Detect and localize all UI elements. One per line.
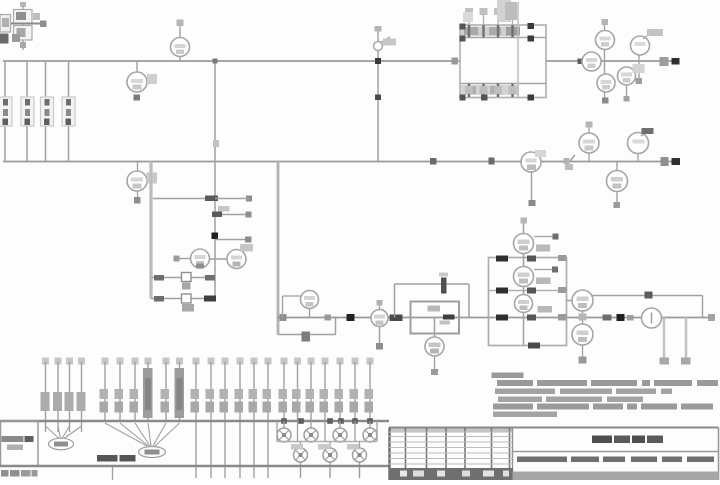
wire TE2 to bus [179,57,181,62]
tick on L3 [325,315,332,321]
strip wire B4 [145,358,152,422]
valve HV1 top tick [375,26,382,42]
wire FI1 stem down [529,172,536,206]
stub K2 [534,267,558,273]
cable label 5 [100,389,109,413]
cable label 15 [249,389,258,413]
cable label 9 [161,389,170,413]
notes line 5 [493,412,557,418]
terminal tick PI3 [602,98,609,104]
instrument circle TI5 [579,133,599,153]
wire lamp row edge right [376,421,378,442]
title block name text [517,457,714,463]
dark marker A2 [0,13,40,44]
device box PLC1 [411,302,460,334]
connector MV1-MV2 [579,311,587,324]
wire drop at x215 [214,61,216,299]
cable label 13 [220,389,229,413]
cable merge B [105,423,180,446]
wire bus L3 (mid bus) [277,317,712,319]
title block column boundary [512,428,514,481]
contacts U2 right [558,255,567,321]
junction dots U1 right [481,23,534,101]
wire down x686 [681,318,691,365]
contacts U2 mid [527,256,536,321]
wire heavy bottom line [0,465,390,467]
wire drop line 2 [26,61,28,162]
label K1 [536,245,550,252]
wire PLC1 to gauge [434,318,436,339]
instrument circle FE1 arm [174,256,191,262]
strip wire A3 [66,358,73,433]
wire row y277 [151,275,215,281]
contact frame U1 outline [460,25,546,98]
sensor cluster A1 stem [20,2,26,50]
strip wire A2 [55,358,62,433]
cable label 11 [191,389,200,413]
instrument circle PI2 [596,31,615,50]
strip wire C5 [251,358,258,479]
wire branch y239 stub [215,237,252,243]
cable stub below line [112,467,114,480]
contact pair bottom 2 [480,84,488,98]
wire bus L1 (top supply bus) [3,60,679,62]
lamp circle HL3 [353,448,367,478]
motor valve circle MV2 [572,324,593,345]
strip wire C1 [193,358,200,479]
junction in PLC1 [443,315,455,320]
cable label 4 [77,392,86,411]
strip wire B6 [176,358,183,422]
cable label 17 [279,389,288,413]
wire MV2 stem [579,345,587,364]
contact pair top 4 [509,8,517,38]
frame U1 top band texture [460,24,521,42]
instrument circle TE3 stem [137,162,139,172]
wire FQ1 stem [431,356,438,375]
title block doc number [592,436,663,444]
frame U1 bottom inner line [460,83,546,85]
bottom text row [1,470,38,477]
strip wire G1 [281,358,288,422]
instrument circle PI4 [618,67,636,85]
instrument circle FI2 [371,310,388,327]
wire drop line 4 [68,61,70,162]
notes line 3 [498,397,643,403]
instrument circle TE3 [127,171,147,191]
cable label 23 [365,389,374,413]
title block sign band [389,468,513,480]
wire down x664 [660,318,670,365]
valve HV1 body [374,37,397,51]
strip wire C2 [208,358,215,479]
instrument circle PI1 [582,52,601,71]
label PLC1 bottom [440,321,451,325]
strip wire G3 [308,358,315,422]
lamp circle H3 [333,421,347,442]
cable label 12 [206,389,215,413]
wire cross vertical x604 [602,19,609,101]
instrument circle TI6 [607,162,628,209]
cable label 21 [335,389,344,413]
instrument circle TI5 stem [586,122,593,134]
terminal tick TE1 [134,95,141,101]
strip wire B1 [102,358,109,422]
cable markers on L2 [430,158,495,165]
notes line 2 [495,389,672,395]
title block bottom band [513,472,719,481]
wire row2 feeds [298,421,360,448]
lamp circle HL2 [323,448,337,478]
label TE3 [147,173,158,184]
wire drop line 3 [45,61,47,162]
wire branch y198 stub [215,198,250,200]
heater box EK4 [62,97,75,126]
bypass loop top [395,283,470,285]
title block grid verticals [406,428,510,469]
frame U1 bottom band texture [460,85,520,101]
title block grid rows [389,432,513,464]
wire TI5 to L2 [588,153,590,162]
junction x215 dark [212,233,219,240]
cable label B [139,447,166,458]
strip wire C4 [237,358,244,479]
wire drop x278 [277,162,280,335]
strip wire B2 [117,358,124,422]
lamp circle H1 [277,421,291,442]
cable label 19 [306,389,315,413]
wire branch y214 stub [212,206,252,218]
strip wire B3 [132,358,139,422]
junction box T1 outline [1,421,39,466]
relay coil K2 [514,267,534,287]
contacts U2 left [496,256,508,321]
wire FI2 stem down [376,327,383,350]
label K3 [538,306,553,313]
strip wire G4 [322,358,329,422]
cable marker x215 [213,140,219,147]
cable label 6 [115,389,124,413]
strip wire G2 [294,358,301,422]
contact pair top 2 [480,8,488,38]
sensor A1 upper box [14,10,33,24]
cable merge A [46,426,82,439]
junction L3 marks [603,314,634,321]
terminal tick before frame U1 [452,58,459,65]
wire bus L2 (second bus) [3,161,680,163]
instrument circle TE1 [127,72,147,92]
pressure switch PS1 [631,29,664,55]
relay coil K3 [515,295,533,313]
wire bus L4 (strip bus) [0,420,389,422]
notes line 4 [493,404,713,410]
strip wire C3 [222,358,229,479]
stub K1 [534,234,559,240]
cable label 3 [65,392,74,411]
label K2 [536,278,551,285]
strip wire A4 [78,358,85,433]
cable marker on drop [375,95,381,101]
wire PS2 to L2 [637,154,639,162]
pressure switch PS2 [628,128,654,154]
relay frame U2 outline [489,258,567,346]
strip wire A1 [42,358,49,433]
wire FE1 to FE2 [210,258,228,260]
title block right edge [718,428,720,481]
loop bottom [278,318,336,335]
heater box EK3 [41,97,54,126]
contact pair top 3 [494,8,502,38]
instrument circle FI1 [521,150,546,172]
instrument circle FE2 [227,250,246,269]
junction x215/L1 [213,59,218,64]
junction before bypass [390,315,403,322]
instrument TE1 stem [136,61,138,72]
cable label 2 [53,392,62,411]
label FE2 [240,244,253,252]
motor valve circle MV1 [572,290,593,311]
cable label 1 [41,392,50,411]
cable label 7 [130,389,139,413]
wire PS1 stem down [633,55,645,84]
junction ticks on L4 [281,418,373,424]
pump circle S1 [642,308,662,328]
valve body A2 left box [0,15,11,33]
wire PI5 stub [309,309,311,318]
cable line x151 [149,162,153,299]
wire A1 output arm [0,21,47,28]
strip wire G6 [352,358,359,422]
element box on loop [302,332,311,342]
symbols above frame U1 [463,0,517,22]
cable label 16 [263,389,272,413]
cable label 22 [350,389,359,413]
junction box T1 text [2,436,34,450]
junction L3 dark [347,314,355,321]
panel label text [97,455,136,462]
strip wire B5 [163,358,170,422]
junction on L1 [578,59,584,65]
relay coil K1 [514,234,534,254]
frame U1 top inner line [460,37,546,39]
lamp circle HL1 [294,448,308,478]
junction y198 [205,196,252,202]
cable label 10 [175,368,185,418]
wire lamp row connector [277,441,377,443]
terminal L2 end [661,157,681,166]
cable label A [49,438,74,450]
switch lever on L2 [564,155,576,170]
contact pair bottom 3 [494,84,502,98]
cable label 8 [143,368,153,418]
cable label 14 [235,389,244,413]
instrument circle TE2 [171,38,190,57]
contact pair top 1 [465,8,473,38]
sensor A1 lower box [14,26,33,41]
title block top edge [389,428,719,433]
frame U1 center column [517,2,519,97]
terminal L3 end [708,314,715,321]
labels under lamps [291,444,359,450]
notes line 1 [497,380,718,386]
junction HV1/L1 [375,58,381,64]
heater box EK1 [0,97,12,126]
terminal sq on L3 [280,314,287,321]
terminal tick TE3 [134,191,141,204]
notes header [492,373,524,379]
gauge circle FQ1 [425,337,444,356]
wire lamp row edge left [276,421,278,442]
lamp circle H2 [304,421,318,442]
cable label 20 [320,389,329,413]
element box E2 [182,294,195,312]
strip wire G7 [367,358,374,422]
wire PI4 stem [624,85,630,102]
instrument TE2 stem up [177,20,184,39]
strip wire C6 [265,358,272,479]
label TE1 [147,74,157,84]
cable label 18 [292,389,301,413]
terminal L1 end [660,57,680,66]
contact pair bottom 1 [465,84,473,98]
frame U2 middle line [489,290,567,292]
instrument circle FE1 [191,249,210,269]
contact pair bottom 4 [509,84,517,98]
relay chain stem [521,218,528,346]
label PLC1 top [428,306,441,312]
lamp circle H4 [363,421,377,442]
bypass wire over S1 [592,292,703,318]
wire row y298 [151,296,216,302]
tick above FI2 [377,300,383,310]
wire PI5 left loop [283,296,302,318]
instrument circle PI5 [301,291,319,309]
title block left edge [388,428,390,481]
bypass loop left [394,284,396,318]
instrument circle PI3 [597,74,615,92]
bypass loop right [468,284,470,318]
wire drop line 1 [4,61,6,162]
heater box EK2 [21,97,34,126]
valve tick on bypass [439,273,448,294]
title block divider [513,451,719,453]
wire branch y198 [153,198,215,200]
strip wire G5 [337,358,344,422]
wire HV1 drop to bus L2 [377,51,379,162]
wire U2 to MV1 [567,300,573,302]
element box E1 [182,273,192,290]
contact U2 bottom [528,343,540,349]
